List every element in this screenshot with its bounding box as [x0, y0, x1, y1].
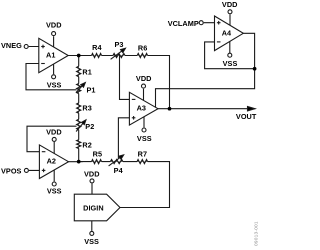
- svg-text:VNEG: VNEG: [1, 41, 22, 50]
- svg-text:VSS: VSS: [84, 237, 99, 246]
- svg-text:P1: P1: [87, 85, 96, 94]
- svg-text:VDD: VDD: [46, 127, 62, 136]
- svg-text:A3: A3: [137, 104, 146, 113]
- svg-text:A2: A2: [47, 157, 56, 166]
- svg-text:R6: R6: [138, 43, 147, 52]
- svg-text:VSS: VSS: [47, 187, 62, 196]
- svg-text:R3: R3: [82, 103, 91, 112]
- svg-text:VDD: VDD: [84, 169, 100, 178]
- svg-text:VPOS: VPOS: [1, 167, 22, 176]
- svg-text:P4: P4: [114, 166, 124, 175]
- svg-text:VOUT: VOUT: [236, 112, 257, 121]
- svg-text:A4: A4: [222, 28, 232, 37]
- svg-text:R2: R2: [82, 140, 91, 149]
- svg-text:R4: R4: [92, 43, 102, 52]
- svg-text:R5: R5: [93, 149, 102, 158]
- svg-text:P2: P2: [85, 122, 94, 131]
- svg-text:09013-001: 09013-001: [253, 221, 259, 246]
- svg-text:A1: A1: [46, 51, 55, 60]
- svg-text:VSS: VSS: [223, 59, 238, 68]
- svg-text:R7: R7: [138, 149, 147, 158]
- svg-text:VDD: VDD: [222, 0, 238, 9]
- svg-text:DIGIN: DIGIN: [83, 204, 104, 213]
- svg-text:VSS: VSS: [47, 81, 62, 90]
- svg-text:R1: R1: [82, 67, 91, 76]
- svg-text:VDD: VDD: [46, 20, 62, 29]
- svg-text:P3: P3: [114, 40, 123, 49]
- svg-text:VSS: VSS: [137, 134, 152, 143]
- svg-text:VCLAMP: VCLAMP: [168, 19, 199, 28]
- svg-text:VDD: VDD: [136, 74, 152, 83]
